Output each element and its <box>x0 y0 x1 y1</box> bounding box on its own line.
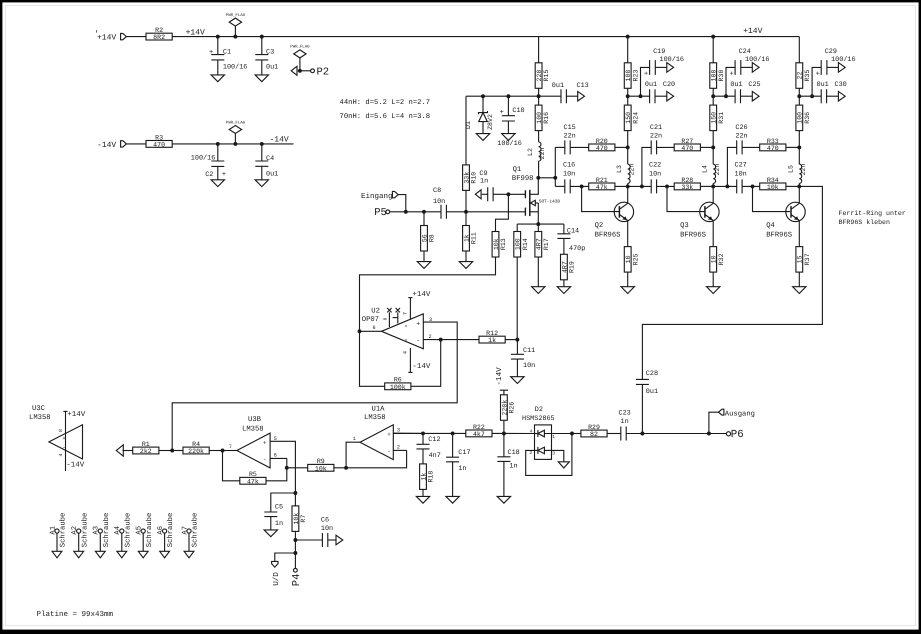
svg-text:C28: C28 <box>646 370 658 378</box>
junction node <box>711 94 715 98</box>
wire branch vertical <box>642 147 651 186</box>
junction <box>481 94 485 98</box>
svg-text:100: 100 <box>515 238 522 250</box>
junction collector node <box>711 184 715 188</box>
svg-text:R12: R12 <box>486 330 498 337</box>
svg-text:R23: R23 <box>632 70 639 82</box>
wire Q4 collector to C28 <box>642 186 822 379</box>
wire collector row stage2 <box>628 185 652 187</box>
inductor L5 <box>798 147 800 164</box>
svg-text:R7: R7 <box>300 515 307 523</box>
svg-text:10n: 10n <box>321 525 333 533</box>
svg-text:R33: R33 <box>767 138 779 145</box>
capacitor C6 <box>295 539 322 541</box>
wire <box>742 185 760 187</box>
svg-text:100/16: 100/16 <box>223 64 247 72</box>
svg-text:U2: U2 <box>371 307 380 315</box>
wire U1A pin3 <box>393 432 423 434</box>
capacitor C1 <box>217 37 219 55</box>
junction mid node <box>711 145 715 149</box>
ground <box>459 262 472 269</box>
svg-text:Schraube: Schraube <box>123 513 132 548</box>
wire <box>700 146 713 148</box>
wire D2 pin3 to ground <box>552 450 564 461</box>
mounting hole A3 Schraube <box>98 529 102 533</box>
svg-text:6: 6 <box>274 452 277 458</box>
svg-text:Schraube: Schraube <box>80 513 89 548</box>
svg-text:PWR_FLAG: PWR_FLAG <box>226 120 246 125</box>
power flag PWR_FLAG top <box>229 18 241 26</box>
svg-text:C26: C26 <box>735 124 747 132</box>
svg-text:Eingang: Eingang <box>361 192 393 201</box>
ground <box>557 287 570 294</box>
capacitor C11 <box>516 340 518 355</box>
resistor R8 <box>423 212 425 226</box>
svg-text:4: 4 <box>530 429 533 435</box>
wire +14V rail <box>172 36 799 38</box>
junction <box>640 432 644 436</box>
svg-text:R6: R6 <box>394 377 402 384</box>
svg-text:C10: C10 <box>512 107 524 115</box>
wire collector row stage3 <box>713 185 737 187</box>
svg-text:-14V: -14V <box>66 462 85 470</box>
junction <box>439 338 443 342</box>
svg-text:R24: R24 <box>632 112 639 124</box>
ground <box>502 134 515 141</box>
svg-text:100: 100 <box>797 112 804 124</box>
wire <box>570 146 589 148</box>
svg-text:C4: C4 <box>266 155 274 163</box>
svg-text:22n: 22n <box>564 133 576 141</box>
connector P2 <box>291 66 297 75</box>
svg-text:C14: C14 <box>567 227 579 235</box>
svg-text:C23: C23 <box>619 409 631 417</box>
wire R13 to U2 output <box>360 257 496 331</box>
resistor R7 <box>294 493 296 506</box>
svg-text:-14V: -14V <box>412 363 431 371</box>
svg-text:10k: 10k <box>493 238 500 250</box>
wire <box>626 433 709 435</box>
junction <box>537 94 541 98</box>
wire input row <box>390 211 441 213</box>
svg-text:-: - <box>62 444 65 451</box>
wire U1A pin2 <box>393 449 406 451</box>
mounting hole A1 Schraube <box>55 529 59 533</box>
svg-text:C29: C29 <box>825 48 837 56</box>
wire U1A output pin1 feedback <box>346 442 360 468</box>
svg-text:A3: A3 <box>93 526 101 535</box>
svg-text:R10: R10 <box>471 172 478 184</box>
hier label arrow R1 in <box>123 450 133 452</box>
wire <box>492 432 535 434</box>
wire <box>126 36 146 38</box>
svg-text:R4: R4 <box>192 441 200 448</box>
resistor R2 <box>146 33 172 40</box>
svg-text:70nH: d=5.6 L=4 n=3.8: 70nH: d=5.6 L=4 n=3.8 <box>340 112 431 121</box>
svg-text:1k: 1k <box>488 337 496 344</box>
svg-text:+: + <box>500 109 504 117</box>
svg-text:PWR_FLAG: PWR_FLAG <box>290 45 310 50</box>
junction collector node <box>626 184 630 188</box>
svg-text:5: 5 <box>274 436 277 442</box>
svg-text:P6: P6 <box>731 429 744 441</box>
resistor R28 <box>674 183 700 190</box>
diode D2 bottom half <box>535 449 538 451</box>
wire <box>126 143 146 145</box>
hier label arrow C25 out <box>741 95 753 97</box>
wire <box>615 146 628 148</box>
resistor R9 <box>287 467 308 469</box>
resistor R32 <box>710 247 717 273</box>
junction <box>502 432 506 436</box>
svg-text:10: 10 <box>625 255 632 263</box>
svg-text:C2: C2 <box>205 171 213 179</box>
svg-text:Q1: Q1 <box>513 166 522 174</box>
svg-text:R29: R29 <box>588 424 600 431</box>
svg-text:47k: 47k <box>247 478 259 485</box>
svg-text:BFR96S: BFR96S <box>680 231 706 239</box>
svg-text:R25: R25 <box>632 253 639 265</box>
svg-text:10n: 10n <box>563 171 575 179</box>
op-amp U3C LM358 <box>49 425 83 459</box>
resistor R5 feedback <box>223 451 240 481</box>
svg-text:8R2: 8R2 <box>153 34 165 41</box>
ground <box>255 180 268 187</box>
ground <box>532 287 545 294</box>
svg-text:R31: R31 <box>718 112 725 124</box>
svg-text:SOT-143B: SOT-143B <box>539 199 560 204</box>
ground <box>558 462 569 468</box>
junction <box>260 142 264 146</box>
wire U3B output pin7 <box>223 450 237 452</box>
svg-text:1: 1 <box>353 436 356 442</box>
resistor R20 <box>589 144 615 151</box>
svg-text:-: - <box>263 456 266 463</box>
svg-text:3: 3 <box>397 427 400 433</box>
resistor R14 <box>516 224 518 231</box>
junction <box>464 210 468 214</box>
svg-text:1n: 1n <box>480 177 488 185</box>
svg-text:C21: C21 <box>650 124 662 132</box>
junction <box>170 449 174 453</box>
junction <box>260 35 264 39</box>
wire <box>641 384 643 433</box>
svg-text:C19: C19 <box>653 48 665 56</box>
ground <box>476 134 489 141</box>
junction <box>233 35 237 39</box>
svg-text:0u1: 0u1 <box>730 81 742 89</box>
junction <box>404 210 408 214</box>
svg-text:R8: R8 <box>429 234 436 242</box>
wire node row <box>466 95 561 97</box>
junction node <box>797 94 801 98</box>
svg-text:P2: P2 <box>317 66 330 78</box>
hier label Ausgang <box>709 412 719 433</box>
resistor R22 <box>466 430 492 437</box>
svg-text:C27: C27 <box>735 162 747 170</box>
capacitor C8 <box>441 205 446 219</box>
svg-text:-14V: -14V <box>496 367 504 386</box>
resistor R29 <box>572 433 581 435</box>
svg-text:100/16: 100/16 <box>660 56 684 64</box>
svg-text:22n: 22n <box>800 164 807 176</box>
svg-text:82: 82 <box>590 431 598 438</box>
svg-text:R17: R17 <box>543 238 550 250</box>
svg-text:Ausgang: Ausgang <box>725 410 755 418</box>
svg-text:6: 6 <box>373 325 376 331</box>
svg-text:0u1: 0u1 <box>552 82 564 90</box>
power flag PWR_FLAG at P2 <box>294 50 306 58</box>
resistor R34 <box>760 183 786 190</box>
power +14V U3C <box>63 410 67 412</box>
svg-text:R3: R3 <box>155 134 163 141</box>
resistor R19 <box>561 254 568 279</box>
svg-text:Q3: Q3 <box>680 222 689 230</box>
svg-text:1n: 1n <box>458 465 466 473</box>
resistor R21 <box>589 183 615 190</box>
svg-text:R15: R15 <box>543 70 550 82</box>
junction <box>233 142 237 146</box>
wire <box>172 143 293 145</box>
svg-text:0u1: 0u1 <box>266 64 278 72</box>
junction <box>725 184 729 188</box>
wire drain branch vertical <box>554 147 556 186</box>
capacitor C16 <box>555 185 565 187</box>
resistor R4 <box>209 450 222 452</box>
svg-text:470: 470 <box>596 145 608 152</box>
svg-text:10n: 10n <box>433 198 445 206</box>
svg-text:BFR96S: BFR96S <box>766 231 792 239</box>
resistor R30 <box>712 37 714 63</box>
diode D2 top half <box>535 433 538 435</box>
svg-text:100/16: 100/16 <box>191 154 215 162</box>
junction mid node <box>626 145 630 149</box>
resistor R11 <box>465 212 467 226</box>
mounting hole A5 Schraube <box>141 529 145 533</box>
wire <box>700 185 713 187</box>
svg-text:LM358: LM358 <box>364 414 386 422</box>
svg-text:2: 2 <box>429 334 432 340</box>
capacitor C5 <box>271 493 296 512</box>
svg-text:A1: A1 <box>49 526 57 535</box>
mounting hole A2 Schraube <box>77 529 81 533</box>
svg-text:100: 100 <box>711 70 718 82</box>
resistor R1 <box>159 450 172 452</box>
capacitor C13 <box>561 89 566 103</box>
svg-text:10n: 10n <box>735 171 747 179</box>
svg-text:Schraube: Schraube <box>166 513 175 548</box>
junction <box>293 551 297 555</box>
capacitor C24 electrolytic <box>713 95 735 97</box>
svg-text:+: + <box>222 171 226 179</box>
hier label arrow C20 out <box>655 95 667 97</box>
resistor R25 <box>624 247 631 273</box>
capacitor C19 electrolytic <box>628 95 650 97</box>
svg-text:100/16: 100/16 <box>497 140 521 148</box>
svg-text:7: 7 <box>403 312 409 315</box>
svg-text:R16: R16 <box>543 112 550 124</box>
svg-text:100/16: 100/16 <box>831 56 855 64</box>
wire D2 pin2 loop <box>526 434 572 476</box>
svg-text:R19: R19 <box>569 261 576 273</box>
svg-text:R18: R18 <box>428 471 435 483</box>
resistor R12 <box>479 336 505 343</box>
svg-text:+: + <box>387 431 391 438</box>
transistor Q1 BF998 dual-gate MOSFET <box>524 190 526 216</box>
svg-text:BFR96S: BFR96S <box>595 231 621 239</box>
capacitor C26 <box>737 140 742 154</box>
junction <box>216 142 220 146</box>
svg-text:10k: 10k <box>315 465 327 472</box>
wire base Q4 <box>753 186 791 211</box>
svg-text:100: 100 <box>625 70 632 82</box>
wire <box>570 185 589 187</box>
wire <box>615 185 628 187</box>
svg-text:R9: R9 <box>317 458 325 465</box>
svg-text:470: 470 <box>767 145 779 152</box>
svg-text:Ferrit-Ring unter: Ferrit-Ring unter <box>839 210 906 217</box>
svg-text:56: 56 <box>421 234 428 242</box>
svg-text:1n: 1n <box>275 520 283 528</box>
svg-text:33k: 33k <box>681 184 693 191</box>
svg-text:R11: R11 <box>471 232 478 244</box>
wire <box>607 433 621 435</box>
svg-text:P5: P5 <box>374 207 387 219</box>
svg-text:470: 470 <box>681 145 693 152</box>
svg-text:R35: R35 <box>804 70 811 82</box>
svg-text:R37: R37 <box>804 253 811 265</box>
svg-text:R27: R27 <box>681 138 693 145</box>
mounting hole A4 Schraube <box>120 529 124 533</box>
svg-text:0u1: 0u1 <box>817 81 829 89</box>
svg-text:R30: R30 <box>718 70 725 82</box>
junction <box>707 432 711 436</box>
svg-text:Schraube: Schraube <box>145 513 154 548</box>
resistor R31 <box>712 96 714 105</box>
wire <box>742 146 760 148</box>
capacitor C22 <box>651 179 656 193</box>
svg-text:C6: C6 <box>321 516 329 524</box>
svg-text:10: 10 <box>711 255 718 263</box>
svg-text:1k: 1k <box>420 473 427 481</box>
op-amp U3B LM358 <box>237 433 270 468</box>
svg-text:C20: C20 <box>663 81 675 89</box>
junction <box>570 432 574 436</box>
resistor R33 <box>760 144 786 151</box>
svg-text:BF998: BF998 <box>512 175 534 183</box>
svg-text:A6: A6 <box>157 526 165 535</box>
junction rail <box>711 35 715 39</box>
svg-text:L4: L4 <box>702 165 709 173</box>
junction node <box>626 94 630 98</box>
wire base Q2 <box>582 186 620 211</box>
svg-text:3: 3 <box>552 451 555 457</box>
svg-text:C13: C13 <box>577 82 589 90</box>
capacitor C14 <box>563 224 565 234</box>
svg-text:R26: R26 <box>509 402 516 414</box>
wire U3B pin6 <box>270 457 287 459</box>
diode D2 HSMS2865 <box>535 425 552 460</box>
hier label arrow C19 out <box>655 66 667 68</box>
svg-text:3: 3 <box>429 317 432 323</box>
wire gate2 to R13 <box>496 194 509 231</box>
junction mid node <box>797 145 801 149</box>
svg-text:U1A: U1A <box>372 405 386 413</box>
svg-text:220k: 220k <box>188 448 204 455</box>
svg-text:R14: R14 <box>522 238 529 250</box>
svg-text:10n: 10n <box>523 362 535 370</box>
svg-text:+: + <box>416 321 420 328</box>
svg-text:0u1: 0u1 <box>645 81 657 89</box>
svg-text:100: 100 <box>536 112 543 124</box>
wire <box>657 146 675 148</box>
svg-text:Z8V2: Z8V2 <box>487 114 494 130</box>
svg-text:Q4: Q4 <box>766 222 775 230</box>
svg-text:C1: C1 <box>223 48 231 56</box>
op-amp U1A LM358 <box>360 425 393 460</box>
svg-text:+14V: +14V <box>743 27 762 36</box>
svg-text:+14V: +14V <box>412 291 431 299</box>
svg-text:C11: C11 <box>523 347 535 355</box>
svg-text:BFR96S kleben: BFR96S kleben <box>839 219 890 226</box>
svg-text:22: 22 <box>797 72 804 80</box>
ground <box>621 287 634 294</box>
resistor R10 <box>465 96 467 165</box>
op-amp U2 OP07 <box>382 314 424 349</box>
zener diode D1 Z8V2 <box>482 96 484 112</box>
wire <box>657 185 675 187</box>
svg-text:+: + <box>816 71 820 79</box>
node drain Q1 <box>536 176 540 180</box>
ground <box>255 75 268 82</box>
junction <box>293 538 297 542</box>
capacitor C2 <box>217 144 219 161</box>
junction <box>221 449 225 453</box>
svg-text:Schraube: Schraube <box>102 513 111 548</box>
capacitor C21 <box>651 140 656 154</box>
junction <box>285 466 289 470</box>
svg-text:150: 150 <box>625 112 632 124</box>
svg-text:C12: C12 <box>428 436 440 444</box>
ground <box>211 75 224 82</box>
svg-text:7: 7 <box>229 444 232 450</box>
svg-text:Q2: Q2 <box>595 222 604 230</box>
capacitor C9 <box>482 193 488 195</box>
svg-text:C17: C17 <box>458 449 470 457</box>
junction <box>216 35 220 39</box>
junction collector node <box>797 184 801 188</box>
ground <box>264 530 277 537</box>
svg-text:-14V: -14V <box>97 141 116 150</box>
svg-text:470: 470 <box>153 141 165 148</box>
capacitor C28 <box>636 379 649 384</box>
capacitor C20 <box>650 89 655 103</box>
svg-text:>: > <box>405 324 410 327</box>
resistor R15 <box>538 37 540 63</box>
svg-text:47k: 47k <box>596 184 608 191</box>
svg-text:1n: 1n <box>621 418 629 426</box>
junction <box>506 94 510 98</box>
hier label arrow C30 out <box>827 95 839 97</box>
wire <box>505 339 517 341</box>
svg-text:+14V: +14V <box>67 411 86 419</box>
wire R14 down to R12 node <box>516 257 518 340</box>
svg-text:P4: P4 <box>291 574 303 587</box>
svg-text:D2: D2 <box>535 406 543 414</box>
svg-text:8: 8 <box>58 429 64 432</box>
no-connect pins U2 <box>388 312 390 327</box>
svg-text:0u1: 0u1 <box>646 388 658 396</box>
